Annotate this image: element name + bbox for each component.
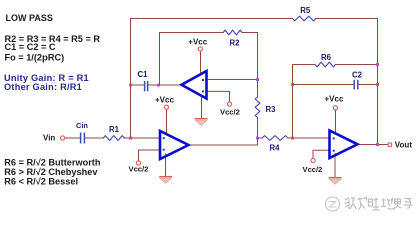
wire C2 left lead [293,84,354,86]
node C2 right junction [376,83,379,86]
wire B output to R3/R4 node [189,138,258,145]
wire A top input [207,79,258,81]
svg-text:+Vcc: +Vcc [155,96,174,105]
svg-text:+Vcc: +Vcc [188,37,207,46]
wire R2 riser from A output node [160,33,224,86]
watermark text [345,198,413,211]
svg-text:R4: R4 [270,143,281,152]
capacitor C1 [145,81,148,91]
resistor R1 [103,136,124,141]
node C2 left junction [291,83,294,86]
wire R4 right to opamp C [288,137,330,139]
wire Vin to Cin [65,137,80,139]
wire C output to Vout [358,144,389,146]
wire R4 left lead [258,137,263,139]
resistor R6 [315,62,336,67]
svg-text:Fo = 1/(2pRC): Fo = 1/(2pRC) [5,52,65,63]
wire middle riser R6/C2 left [293,65,316,139]
power Vcc/2 (op-amp B) [136,161,140,165]
svg-text:R2: R2 [230,38,241,47]
wire top feedback left segment (R5 left lead) [131,19,293,139]
node R6 right junction [376,63,379,66]
svg-text:R1: R1 [109,125,120,134]
node n1 (C1 left junction) [129,84,132,87]
terminal Vin [61,136,65,140]
node C input junction [291,137,294,140]
watermark logo [326,197,340,211]
svg-text:R6 < R/√2 Bessel: R6 < R/√2 Bessel [4,176,78,186]
node R3/R4 junction [256,137,259,140]
power Vcc/2 (op-amp C) [311,158,315,162]
wire A bottom input to Vcc/2 [207,91,230,102]
svg-text:LOW PASS: LOW PASS [6,13,53,23]
power +Vcc (op-amp A) [198,47,202,51]
wire C2 right lead [359,84,378,86]
terminal Vout [388,143,391,146]
svg-text:Vout: Vout [395,141,413,150]
resistor R2 [223,30,242,35]
wire C1 right to opamp A output [148,84,182,86]
power +Vcc (op-amp C) [333,106,337,110]
capacitor Cin [81,133,85,144]
node B input junction [129,137,132,140]
op-amp B (bottom left, pointing right) [160,131,189,159]
svg-text:Cin: Cin [76,121,88,130]
svg-text:R6: R6 [321,53,332,62]
wire C bottom input to Vcc/2 [313,150,330,158]
svg-text:C1 = C2 = C: C1 = C2 = C [5,42,56,52]
wire Cin to R1 [85,137,103,139]
wire C +Vcc feed [335,110,337,134]
wire R6 right lead [336,64,378,66]
capacitor C2 [354,80,358,90]
wire R1 to opamp B input [124,137,160,139]
wire B ground lead [165,154,167,177]
svg-text:Vin: Vin [43,133,55,142]
wire node n1 to C1 left [131,84,145,86]
wire R2 right to A inverting input riser [242,33,257,98]
power Vcc/2 (op-amp A) [227,102,231,106]
svg-text:Vcc/2: Vcc/2 [303,165,323,174]
svg-text:Vcc/2: Vcc/2 [220,108,240,117]
wire A +Vcc feed [200,51,202,73]
wire B bottom input to Vcc/2 [139,150,161,161]
op-amp C (right, pointing right) [330,131,358,159]
svg-text:C1: C1 [138,70,149,79]
svg-text:+Vcc: +Vcc [325,95,344,104]
node C output junction [376,143,379,146]
wire C ground lead [334,153,336,177]
resistor R4 [262,136,288,141]
svg-text:C2: C2 [352,71,363,80]
wire B +Vcc feed [166,110,168,135]
svg-text:R3: R3 [266,105,277,114]
wire R5 right lead to right riser [316,19,378,145]
resistor R5 [292,16,315,21]
svg-text:Other Gain: R/R1: Other Gain: R/R1 [4,82,82,92]
ground (below op-amp B) [159,177,172,184]
resistor R3 [255,97,260,118]
svg-text:Vcc/2: Vcc/2 [129,165,149,174]
wire R3 bottom lead [257,118,259,139]
ground (below op-amp C) [329,178,342,185]
ground (below op-amp A) [195,119,208,126]
power +Vcc (op-amp B) [164,105,168,109]
node A inverting input junction [256,78,259,81]
wire A ground lead [201,97,203,119]
node A output junction [157,84,160,87]
op-amp A (top middle, pointing left) [182,71,207,99]
svg-text:R5: R5 [300,6,311,15]
